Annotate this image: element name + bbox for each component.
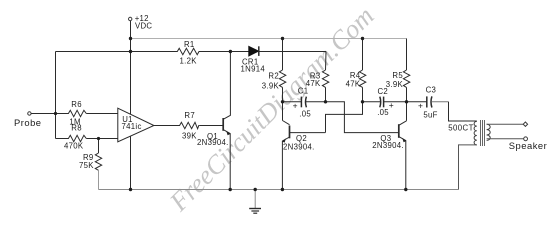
svg-text:39K: 39K <box>182 132 197 141</box>
svg-text:R7: R7 <box>184 111 195 120</box>
svg-text:R2: R2 <box>268 72 279 81</box>
svg-text:470K: 470K <box>64 142 84 151</box>
svg-text:C3: C3 <box>426 85 437 94</box>
svg-text:741ic: 741ic <box>122 122 142 131</box>
svg-text:2N3904.: 2N3904. <box>197 138 229 147</box>
svg-text:+: + <box>389 100 394 110</box>
svg-text:R8: R8 <box>71 123 82 132</box>
svg-text:+: + <box>293 101 298 111</box>
svg-text:75K: 75K <box>79 161 94 170</box>
svg-text:500CT: 500CT <box>448 123 474 132</box>
svg-text:1.2K: 1.2K <box>180 57 198 66</box>
svg-text:1N914: 1N914 <box>241 65 266 74</box>
svg-text:Speaker: Speaker <box>509 140 547 151</box>
svg-text:R1: R1 <box>184 40 195 49</box>
svg-text:2N3904.: 2N3904. <box>372 141 404 150</box>
svg-text:R6: R6 <box>71 100 82 109</box>
svg-text:R5: R5 <box>392 71 403 80</box>
svg-text:VDC: VDC <box>135 22 152 31</box>
svg-text:47K: 47K <box>346 79 361 88</box>
svg-text:5uF: 5uF <box>423 111 437 120</box>
svg-text:C2: C2 <box>378 87 389 96</box>
svg-text:Probe: Probe <box>14 117 42 128</box>
svg-text:2N3904.: 2N3904. <box>283 143 315 152</box>
svg-text:3.9K: 3.9K <box>386 80 404 89</box>
svg-text:.05: .05 <box>377 108 389 117</box>
svg-text:+: + <box>418 101 423 111</box>
svg-text:C1: C1 <box>298 86 309 95</box>
svg-text:.05: .05 <box>299 110 311 119</box>
svg-text:3.9K: 3.9K <box>262 82 280 91</box>
